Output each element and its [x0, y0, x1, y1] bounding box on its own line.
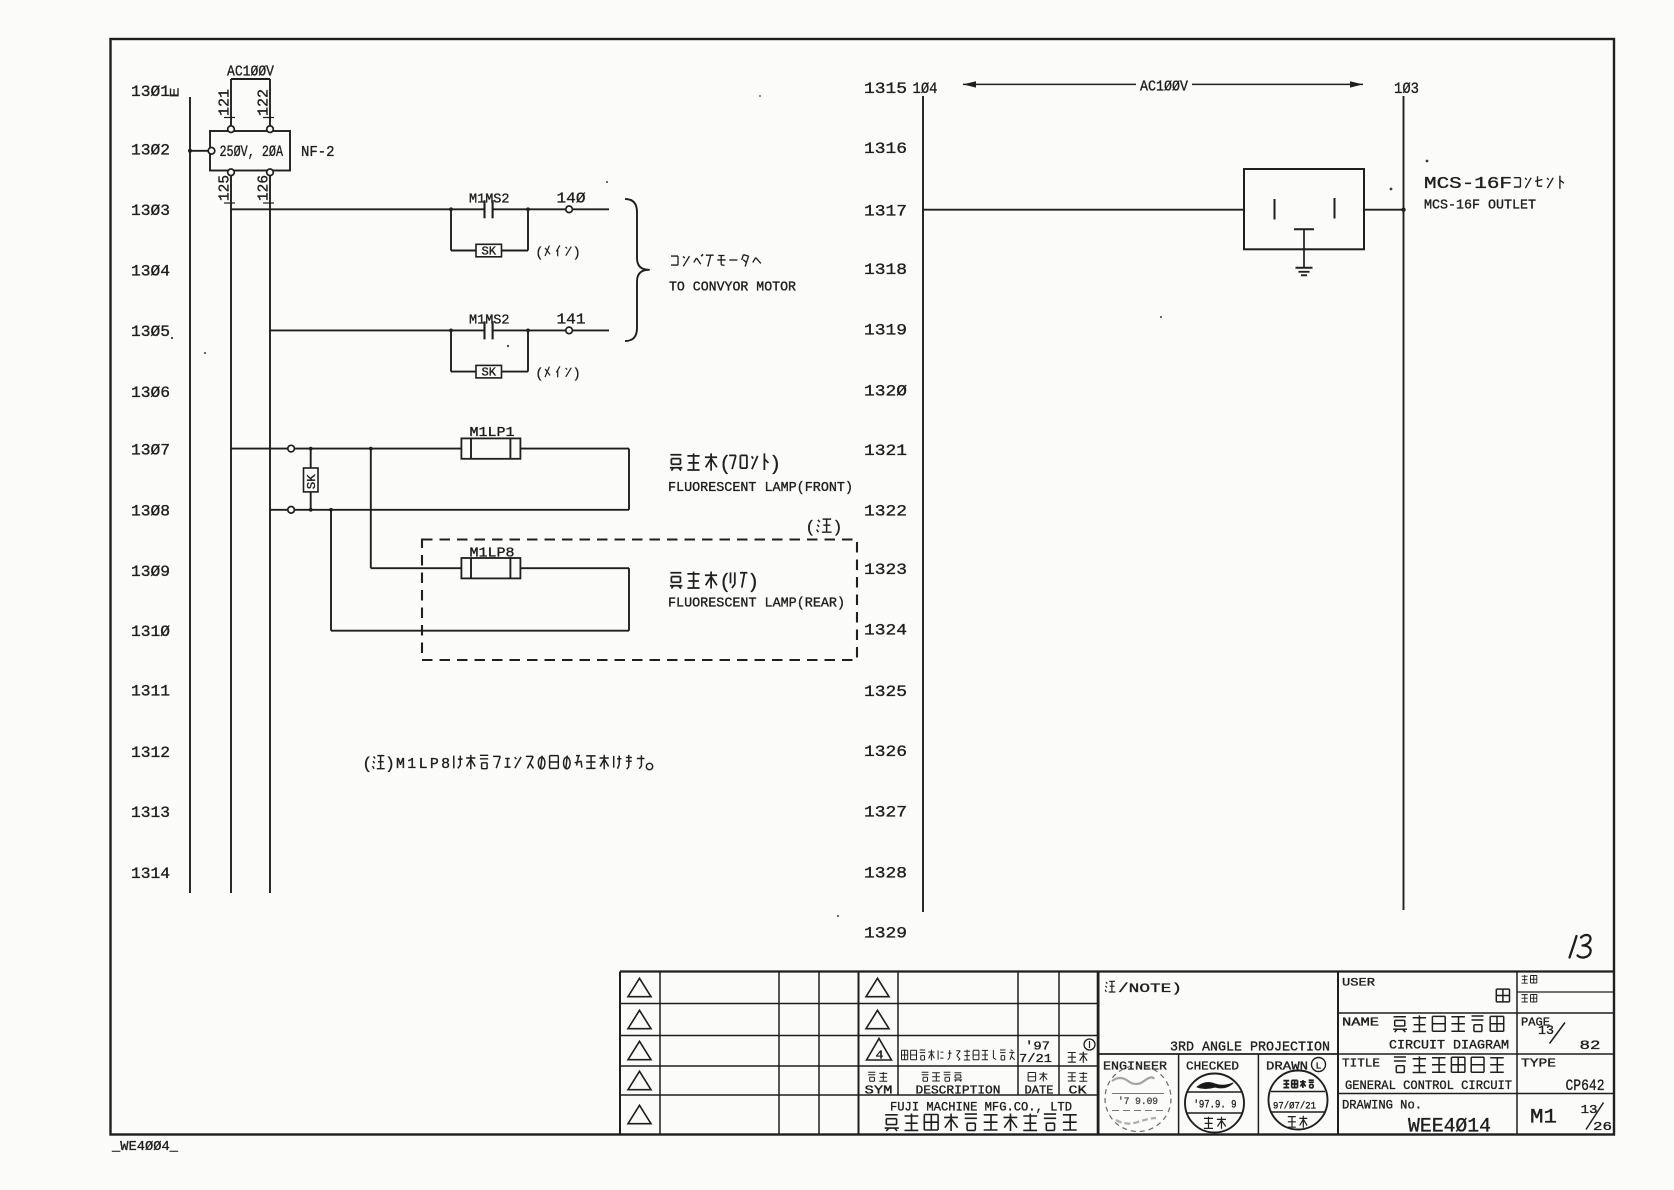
svg-text:AC1ØØV: AC1ØØV — [227, 64, 274, 81]
svg-text:1313: 1313 — [131, 804, 170, 822]
svg-text:SYM: SYM — [865, 1084, 893, 1098]
svg-text:(: ( — [721, 453, 728, 475]
svg-text:1: 1 — [407, 757, 416, 773]
svg-text:1316: 1316 — [864, 140, 907, 158]
svg-text:1323: 1323 — [864, 561, 907, 579]
svg-text:13: 13 — [1538, 1023, 1554, 1038]
svg-text:MCS-16F: MCS-16F — [1424, 174, 1512, 193]
svg-text:13Ø9: 13Ø9 — [131, 563, 170, 581]
svg-text:NAME: NAME — [1342, 1016, 1379, 1030]
svg-text:97/Ø7/21: 97/Ø7/21 — [1273, 1101, 1316, 1113]
svg-text:4: 4 — [876, 1049, 884, 1063]
svg-text:1327: 1327 — [864, 803, 907, 821]
svg-text:131Ø: 131Ø — [131, 623, 170, 641]
svg-text:1315: 1315 — [864, 80, 907, 98]
svg-text:M1LP1: M1LP1 — [470, 426, 515, 441]
svg-text:'7 9.09: '7 9.09 — [1118, 1096, 1158, 1108]
svg-text:14Ø: 14Ø — [557, 190, 586, 207]
svg-text:13Ø8: 13Ø8 — [131, 503, 170, 521]
svg-text:13Ø6: 13Ø6 — [131, 384, 170, 402]
svg-text:1322: 1322 — [864, 503, 907, 521]
svg-text:_WE4ØØ4_: _WE4ØØ4_ — [111, 1140, 179, 1155]
svg-text:13Ø4: 13Ø4 — [131, 262, 170, 280]
svg-text:FLUORESCENT LAMP(FRONT): FLUORESCENT LAMP(FRONT) — [668, 481, 853, 496]
svg-text:M1MS2: M1MS2 — [469, 192, 510, 207]
svg-text:): ) — [388, 754, 394, 773]
svg-text:1311: 1311 — [131, 682, 170, 700]
svg-text:DRAWING No.: DRAWING No. — [1342, 1098, 1422, 1113]
svg-text:13Ø2: 13Ø2 — [131, 141, 170, 159]
svg-text:(: ( — [537, 365, 542, 380]
svg-text:TYPE: TYPE — [1521, 1057, 1556, 1071]
svg-text:132Ø: 132Ø — [864, 382, 907, 400]
svg-text:NF-2: NF-2 — [301, 144, 335, 161]
svg-text:CHECKED: CHECKED — [1186, 1060, 1239, 1074]
svg-text:1Ø3: 1Ø3 — [1394, 80, 1419, 98]
svg-text:CP642: CP642 — [1566, 1077, 1605, 1095]
svg-text:25ØV, 2ØA: 25ØV, 2ØA — [220, 143, 284, 161]
svg-text:1328: 1328 — [864, 864, 907, 882]
svg-text:): ) — [750, 571, 757, 593]
svg-text:P: P — [430, 757, 439, 773]
svg-text:DESCRIPTION: DESCRIPTION — [916, 1084, 1001, 1098]
svg-text:(: ( — [364, 754, 370, 773]
svg-text:GENERAL CONTROL CIRCUIT: GENERAL CONTROL CIRCUIT — [1345, 1078, 1512, 1093]
svg-text:13Ø1: 13Ø1 — [131, 83, 170, 101]
svg-text:1324: 1324 — [864, 621, 907, 639]
svg-text:(: ( — [721, 571, 728, 593]
svg-text:1314: 1314 — [131, 865, 170, 883]
svg-text:WEE4Ø14: WEE4Ø14 — [1408, 1116, 1491, 1139]
svg-text:1317: 1317 — [864, 203, 907, 221]
svg-text:13Ø3: 13Ø3 — [131, 202, 170, 220]
svg-text:1Ø4: 1Ø4 — [913, 80, 938, 98]
svg-text:SK: SK — [482, 367, 497, 380]
svg-text:M1MS2: M1MS2 — [469, 313, 510, 328]
svg-text:TITLE: TITLE — [1342, 1057, 1380, 1071]
svg-text:M: M — [396, 757, 405, 773]
svg-text:8: 8 — [441, 757, 450, 773]
svg-text:122: 122 — [256, 89, 273, 116]
svg-text:1326: 1326 — [864, 743, 907, 761]
svg-text:13Ø7: 13Ø7 — [131, 441, 170, 459]
svg-text:): ) — [575, 365, 580, 380]
svg-text:CIRCUIT DIAGRAM: CIRCUIT DIAGRAM — [1389, 1038, 1509, 1053]
svg-text:CK: CK — [1069, 1084, 1088, 1098]
svg-text:AC1ØØV: AC1ØØV — [1140, 79, 1188, 95]
svg-text:L: L — [1316, 1061, 1322, 1072]
svg-text:82: 82 — [1580, 1038, 1601, 1053]
svg-text:E: E — [168, 87, 183, 97]
svg-text:MCS-16F OUTLET: MCS-16F OUTLET — [1424, 198, 1536, 213]
svg-text:26: 26 — [1593, 1120, 1612, 1134]
svg-text:(: ( — [537, 244, 542, 259]
svg-text:SK: SK — [482, 246, 497, 259]
svg-text:M1LP8: M1LP8 — [470, 546, 515, 561]
svg-text:DATE: DATE — [1025, 1084, 1054, 1098]
svg-text:L: L — [419, 757, 428, 773]
svg-text:FLUORESCENT LAMP(REAR): FLUORESCENT LAMP(REAR) — [668, 597, 845, 612]
svg-text:FUJI MACHINE MFG.CO., LTD: FUJI MACHINE MFG.CO., LTD — [890, 1100, 1072, 1115]
svg-text:TO CONVYOR MOTOR: TO CONVYOR MOTOR — [669, 281, 796, 296]
svg-text:13Ø5: 13Ø5 — [131, 323, 170, 341]
svg-text:1321: 1321 — [864, 442, 907, 460]
svg-text:1325: 1325 — [864, 683, 907, 701]
svg-text:/NOTE): /NOTE) — [1118, 981, 1182, 996]
svg-text:121: 121 — [217, 89, 234, 116]
svg-text:1329: 1329 — [864, 924, 907, 942]
svg-text:SK: SK — [306, 474, 319, 489]
svg-text:7/21: 7/21 — [1019, 1052, 1052, 1066]
svg-text:): ) — [575, 244, 580, 259]
svg-text:1318: 1318 — [864, 261, 907, 279]
svg-text:M1: M1 — [1530, 1107, 1557, 1130]
svg-text:1312: 1312 — [131, 744, 170, 762]
svg-text:1319: 1319 — [864, 321, 907, 339]
svg-text:141: 141 — [557, 311, 586, 328]
svg-text:(: ( — [807, 517, 813, 536]
svg-text:'97.9. 9: '97.9. 9 — [1194, 1100, 1237, 1112]
svg-text:3RD ANGLE PROJECTION: 3RD ANGLE PROJECTION — [1170, 1041, 1330, 1056]
svg-text:): ) — [772, 453, 779, 475]
svg-text:USER: USER — [1342, 978, 1375, 990]
svg-text:): ) — [835, 517, 841, 536]
